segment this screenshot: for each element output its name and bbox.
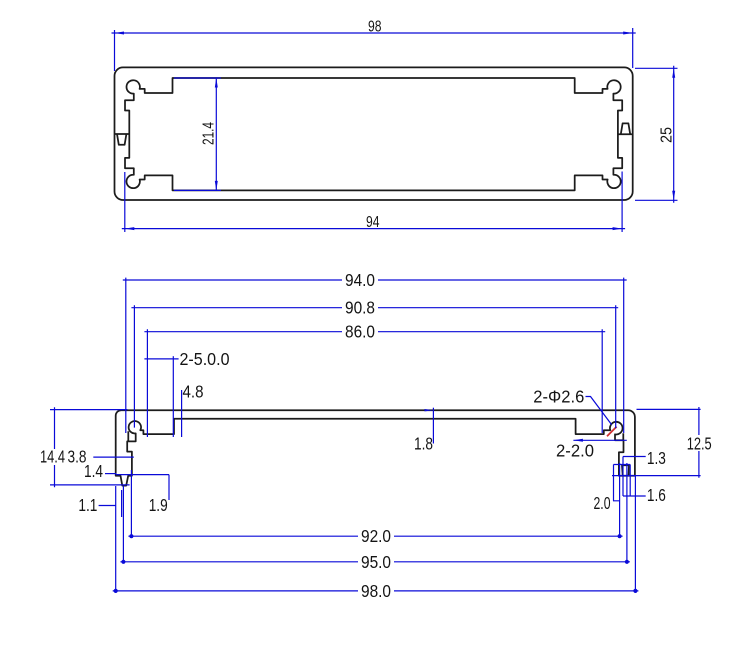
svg-text:92.0: 92.0 (361, 526, 391, 546)
svg-text:90.8: 90.8 (345, 298, 375, 318)
svg-text:1.4: 1.4 (84, 461, 103, 481)
svg-text:2-Φ2.6: 2-Φ2.6 (533, 387, 584, 407)
svg-text:1.3: 1.3 (647, 448, 666, 468)
svg-text:98.0: 98.0 (361, 581, 391, 601)
svg-text:98: 98 (368, 19, 382, 36)
svg-text:14.4: 14.4 (40, 447, 65, 467)
svg-text:12.5: 12.5 (687, 434, 712, 454)
svg-text:94.0: 94.0 (345, 270, 375, 290)
svg-text:2-5.0.0: 2-5.0.0 (180, 349, 230, 369)
svg-text:95.0: 95.0 (361, 552, 391, 572)
svg-text:2-2.0: 2-2.0 (556, 441, 594, 461)
svg-text:1.6: 1.6 (647, 485, 666, 505)
svg-text:94: 94 (366, 214, 380, 231)
svg-text:1.9: 1.9 (149, 495, 168, 515)
svg-text:2.0: 2.0 (594, 493, 611, 513)
svg-text:21.4: 21.4 (201, 122, 218, 145)
svg-text:4.8: 4.8 (183, 382, 204, 402)
svg-text:25: 25 (659, 127, 676, 143)
svg-text:1.1: 1.1 (78, 495, 97, 515)
svg-text:86.0: 86.0 (345, 322, 375, 342)
svg-text:1.8: 1.8 (414, 434, 433, 454)
